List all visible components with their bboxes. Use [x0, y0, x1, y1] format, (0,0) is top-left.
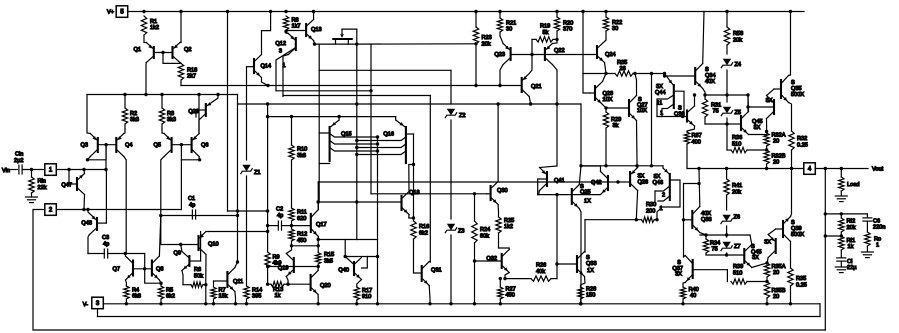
svg-text:510: 510 — [733, 271, 742, 277]
wire Q33 collector — [584, 220, 586, 252]
svg-text:620: 620 — [297, 216, 306, 222]
wire bias bus A — [181, 84, 522, 87]
wire output line — [687, 167, 804, 170]
wire x748 driver column — [747, 95, 749, 112]
transistor Q36 — [674, 93, 696, 132]
svg-text:2k7: 2k7 — [187, 74, 196, 80]
wire Q16 base column — [412, 134, 415, 221]
terminal 5 (V+) — [107, 6, 128, 17]
resistor R22 — [603, 12, 622, 41]
wire x318 column (Q15 base to Q17) — [317, 164, 320, 210]
svg-text:R26: R26 — [536, 263, 546, 269]
svg-text:3k3: 3k3 — [130, 117, 139, 123]
svg-text:30: 30 — [506, 27, 512, 33]
wire feedback jog — [824, 234, 842, 237]
svg-text:R58: R58 — [733, 31, 743, 37]
svg-text:22k: 22k — [38, 185, 47, 191]
wire rail column 227 — [227, 12, 229, 212]
wire x237 to R9 link — [228, 209, 270, 212]
svg-text:C3: C3 — [102, 235, 109, 241]
svg-text:Q42: Q42 — [591, 180, 602, 186]
wire Cin to box1 — [22, 168, 45, 171]
wire Q38 base column — [682, 182, 701, 222]
svg-text:R39: R39 — [733, 264, 743, 270]
svg-text:Vin: Vin — [2, 168, 10, 174]
zener Z5 — [721, 95, 741, 124]
transistor Q21 — [522, 55, 542, 105]
jfet current source — [333, 29, 357, 44]
capacitor C2 — [276, 207, 283, 231]
resistor R32B — [764, 150, 786, 169]
wire R12 link — [290, 244, 318, 247]
resistor R19 — [532, 24, 557, 43]
transistor Q45 (bottom driver) — [727, 235, 767, 268]
transistor Q48 — [81, 210, 106, 254]
wire Q44 emitter node — [663, 74, 666, 78]
resistor R23 — [473, 12, 491, 86]
svg-text:3X: 3X — [764, 240, 771, 246]
transistor Q45 (top driver) — [727, 95, 767, 135]
svg-text:Q16: Q16 — [383, 132, 394, 138]
svg-text:40X: 40X — [705, 79, 715, 85]
svg-text:R15: R15 — [324, 252, 334, 258]
wire x371 column — [370, 44, 372, 194]
wire input tail bus — [87, 93, 238, 96]
wire rail to R35 line — [581, 10, 584, 74]
resistor Ro — [861, 232, 881, 258]
transistor Q28 — [590, 74, 613, 113]
transistor Q3 — [81, 95, 98, 160]
resistor R1 — [141, 16, 159, 35]
resistor R7 — [211, 281, 228, 304]
wire x557 column — [556, 195, 558, 264]
transistor Q11 — [214, 95, 244, 304]
svg-text:500X: 500X — [791, 92, 804, 98]
svg-text:Q8: Q8 — [156, 267, 163, 273]
capacitor Cin — [14, 152, 23, 175]
wire R9 column top — [267, 117, 269, 226]
resistor R32A — [764, 130, 786, 152]
resistor R31 — [702, 95, 728, 126]
svg-text:6k2: 6k2 — [166, 294, 175, 300]
wire x377 column — [376, 137, 379, 305]
wire Q7 Q8 base tie — [133, 269, 161, 283]
svg-text:4p: 4p — [189, 203, 195, 209]
svg-text:Q7: Q7 — [113, 267, 120, 273]
wire Q10 emitter line — [209, 230, 270, 233]
wire box1 to input bases — [56, 145, 107, 172]
transistor Q29 — [188, 95, 218, 134]
svg-text:Q13: Q13 — [311, 27, 322, 33]
wire bus D — [238, 102, 582, 105]
svg-text:1X: 1X — [587, 268, 594, 274]
wire zobel drop — [824, 169, 826, 331]
svg-text:30: 30 — [612, 26, 618, 32]
svg-text:3X: 3X — [754, 125, 761, 131]
svg-text:Q21: Q21 — [531, 84, 542, 90]
transistor Q22 — [545, 39, 565, 166]
svg-text:3k: 3k — [613, 123, 619, 129]
svg-text:510: 510 — [732, 142, 741, 148]
capacitor C6 — [863, 214, 886, 232]
svg-text:200: 200 — [646, 209, 655, 215]
svg-text:R12: R12 — [297, 232, 307, 238]
wire x581 column top — [580, 104, 582, 166]
svg-text:450: 450 — [297, 238, 306, 244]
svg-text:R37: R37 — [692, 133, 702, 139]
wire Q15 collector dots — [376, 135, 379, 152]
resistor R18 — [178, 63, 197, 85]
transistor top clamp 3X — [746, 89, 774, 131]
resistor R32 (0.25) — [789, 131, 808, 169]
resistor R35 (0.25) — [788, 268, 807, 304]
svg-text:2µ2: 2µ2 — [14, 158, 23, 164]
transistor Q31 — [422, 262, 442, 304]
svg-text:Z2: Z2 — [459, 113, 466, 119]
transistor Q34 — [665, 12, 716, 96]
wire Q6 diode tie — [181, 145, 201, 162]
resistor R11 — [289, 208, 307, 229]
svg-text:20: 20 — [773, 294, 779, 300]
wire x160 column down — [160, 216, 162, 245]
zener Z1 — [241, 67, 261, 286]
svg-text:3X: 3X — [752, 255, 759, 261]
svg-text:RI2: RI2 — [847, 219, 856, 225]
transistor Q40 — [338, 240, 379, 288]
svg-text:Cin: Cin — [15, 152, 23, 158]
resistor R40 — [680, 287, 698, 304]
resistor R26 — [503, 262, 558, 281]
wire Q48 base up — [105, 170, 107, 224]
resistor R9 — [265, 226, 282, 285]
svg-text:Q23: Q23 — [494, 52, 505, 58]
transistor Q41 — [538, 166, 565, 196]
capacitor C1 — [188, 196, 196, 219]
transistor Q20 — [288, 267, 331, 304]
transistor Q16 (multi-collector) — [357, 117, 414, 163]
resistor R17 — [354, 287, 372, 304]
svg-text:20k: 20k — [733, 38, 742, 44]
svg-text:450: 450 — [506, 293, 515, 299]
svg-text:3X: 3X — [675, 272, 682, 278]
transistor Q46 (3X) — [653, 166, 681, 220]
svg-text:400: 400 — [692, 140, 701, 146]
svg-text:3: 3 — [279, 49, 282, 55]
transistor Q13 — [284, 12, 321, 45]
svg-text:Rin: Rin — [38, 179, 46, 185]
svg-text:3k3: 3k3 — [167, 117, 176, 123]
svg-text:22µ: 22µ — [847, 265, 857, 271]
resistor R8 — [283, 16, 300, 33]
svg-text:Q31: Q31 — [431, 268, 442, 274]
svg-text:395: 395 — [252, 294, 261, 300]
transistor Q27 — [606, 74, 648, 166]
transistor Q26 — [618, 166, 648, 220]
transistor Q23 — [494, 36, 510, 86]
wire zobel branch line — [824, 212, 868, 215]
svg-text:Q5: Q5 — [154, 143, 161, 149]
wire V- loop — [98, 304, 821, 317]
svg-text:80k: 80k — [480, 234, 489, 240]
wire Vin lead — [10, 169, 18, 171]
svg-text:1: 1 — [876, 243, 879, 249]
svg-text:Q38: Q38 — [701, 217, 712, 223]
zener Z4 — [721, 59, 741, 97]
resistor R25 — [496, 217, 514, 248]
resistor R15 — [316, 238, 335, 268]
resistor R35B — [764, 282, 785, 304]
svg-text:Z1: Z1 — [254, 170, 261, 176]
transistor Q25 — [572, 166, 591, 304]
zener Z2 — [445, 70, 465, 219]
ground Rin — [26, 193, 38, 203]
svg-text:20: 20 — [773, 139, 779, 145]
transistor Q2 — [173, 12, 192, 64]
wire line A y166 — [579, 164, 663, 167]
svg-text:R35: R35 — [796, 276, 806, 282]
transistor Q10 — [199, 232, 219, 287]
transistor Q14 — [247, 12, 272, 86]
svg-text:6k2: 6k2 — [419, 231, 428, 237]
wire V- rail — [103, 302, 820, 305]
svg-text:R6: R6 — [194, 267, 201, 273]
capacitor CI — [837, 258, 857, 271]
resistor R29 — [603, 112, 621, 166]
svg-text:20k: 20k — [847, 225, 856, 231]
svg-text:1X: 1X — [584, 199, 591, 205]
svg-text:Q33: Q33 — [586, 261, 597, 267]
svg-text:R24: R24 — [480, 227, 490, 233]
transistor Q24 — [597, 40, 616, 74]
svg-text:220n: 220n — [873, 225, 885, 231]
svg-text:2: 2 — [662, 193, 665, 199]
transistor Q32 — [475, 248, 510, 279]
capacitor C3 — [102, 235, 109, 258]
transistor Q37 — [672, 256, 727, 288]
svg-text:3k6: 3k6 — [297, 153, 306, 159]
label Vin — [2, 168, 10, 174]
resistor R28 — [578, 287, 596, 304]
svg-text:3k5: 3k5 — [324, 259, 333, 265]
svg-text:Q36: Q36 — [674, 112, 685, 118]
wire box2 line — [56, 160, 181, 211]
wire C1 line — [159, 214, 239, 217]
svg-text:Q2: Q2 — [184, 47, 191, 53]
svg-text:5k: 5k — [543, 30, 549, 36]
svg-text:1k7: 1k7 — [292, 24, 301, 30]
svg-text:40: 40 — [690, 293, 696, 299]
svg-text:26: 26 — [620, 66, 626, 72]
svg-text:Z6: Z6 — [734, 215, 741, 221]
svg-text:150: 150 — [586, 293, 595, 299]
wire Q15 base column up — [318, 44, 320, 133]
transistor Q1 — [134, 35, 154, 95]
svg-text:Q29: Q29 — [188, 109, 199, 115]
wire y44 line to R23 — [357, 43, 476, 45]
svg-text:R19: R19 — [540, 24, 550, 30]
svg-text:R10: R10 — [297, 147, 307, 153]
resistor R3 — [159, 95, 176, 130]
svg-text:40k: 40k — [536, 269, 545, 275]
svg-text:1k: 1k — [848, 244, 854, 250]
wire Q7 diode tie — [125, 254, 146, 271]
svg-text:10X: 10X — [603, 97, 613, 103]
svg-text:4p: 4p — [103, 242, 109, 248]
svg-text:1k2: 1k2 — [150, 25, 159, 31]
wire y194 node line — [538, 194, 599, 196]
wire to Vout — [815, 167, 868, 170]
transistor Q30 — [487, 104, 508, 217]
svg-text:1: 1 — [660, 206, 663, 212]
terminal 2 — [45, 204, 57, 216]
transistor Q19 — [266, 246, 294, 284]
svg-text:V-: V- — [83, 302, 88, 308]
wire x428 column — [429, 96, 431, 263]
transistor Q39 — [783, 169, 804, 269]
svg-text:Q25: Q25 — [580, 190, 591, 196]
resistor RI1 — [839, 236, 856, 258]
transistor Q6 — [192, 95, 209, 160]
wire Q1 Q2 bases — [154, 51, 181, 64]
svg-text:Q4: Q4 — [125, 143, 132, 149]
svg-text:20k: 20k — [482, 42, 491, 48]
wire Q18 base line — [318, 200, 401, 203]
svg-text:Q22: Q22 — [554, 48, 565, 54]
wire bias bus C — [283, 95, 430, 97]
svg-text:75: 75 — [713, 109, 719, 115]
svg-text:75: 75 — [712, 247, 718, 253]
wire to Q31 base — [414, 240, 422, 274]
svg-text:Q46: Q46 — [653, 180, 664, 186]
svg-text:Q41: Q41 — [554, 178, 565, 184]
svg-text:0.25: 0.25 — [797, 143, 808, 149]
resistor R24 — [472, 194, 490, 304]
resistor R27 — [498, 277, 516, 304]
svg-text:11: 11 — [657, 101, 663, 107]
transistor Q7 — [113, 254, 133, 287]
svg-text:R30: R30 — [646, 202, 656, 208]
svg-text:R11: R11 — [297, 210, 307, 216]
label Vout — [872, 167, 884, 173]
resistor R36 — [727, 135, 767, 153]
resistor R13 — [266, 282, 290, 300]
zener Z3 — [445, 224, 464, 304]
svg-text:370: 370 — [563, 27, 572, 33]
svg-text:0.25: 0.25 — [796, 283, 807, 289]
resistor R21 — [497, 12, 516, 37]
svg-text:910: 910 — [362, 294, 371, 300]
wire y235 line — [700, 233, 750, 236]
svg-text:500X: 500X — [791, 232, 804, 238]
wire x651 column — [651, 74, 653, 166]
resistor Load — [835, 169, 859, 202]
resistor R37 — [684, 132, 701, 169]
transistor Q44 (3X) — [655, 74, 687, 119]
svg-text:V+: V+ — [107, 10, 114, 16]
svg-text:50k: 50k — [194, 274, 203, 280]
wire clamp to Q39 base — [776, 228, 783, 230]
transistor Q47 — [61, 170, 84, 210]
svg-text:R32: R32 — [797, 136, 807, 142]
wire y95 line — [703, 93, 749, 96]
svg-text:6k8: 6k8 — [132, 294, 141, 300]
terminal 1 — [45, 164, 57, 176]
svg-text:Q14: Q14 — [261, 64, 272, 70]
svg-text:C1: C1 — [188, 196, 195, 202]
resistor R20 — [554, 12, 573, 42]
wire Q37 collector column — [683, 220, 685, 257]
wire bias bus B — [276, 89, 373, 92]
wire Q3 diode tie — [86, 145, 106, 162]
wire x356 column — [356, 44, 358, 239]
resistor R34 — [703, 235, 726, 255]
wire Q5 Q6 bases — [172, 143, 192, 146]
svg-text:Q11: Q11 — [233, 279, 243, 285]
svg-text:Q12: Q12 — [275, 41, 286, 47]
resistor R5 — [158, 286, 175, 304]
wire Q28 base loop — [583, 74, 590, 94]
svg-text:Z7: Z7 — [734, 244, 741, 250]
svg-text:20: 20 — [773, 270, 779, 276]
svg-text:Q17: Q17 — [316, 222, 327, 228]
wire y116 feed stub — [266, 102, 269, 116]
resistor R10 — [289, 117, 307, 208]
resistor R14 — [244, 286, 262, 304]
resistor R35A — [764, 261, 785, 281]
svg-text:Q10: Q10 — [208, 242, 219, 248]
wire C2 line — [266, 224, 292, 227]
svg-text:Q3: Q3 — [81, 143, 88, 149]
svg-text:Q9: Q9 — [174, 251, 181, 257]
svg-text:C2: C2 — [276, 207, 283, 213]
svg-text:Z3: Z3 — [458, 229, 465, 235]
wire V+ rail — [128, 10, 804, 13]
transistor Q38 — [684, 169, 712, 236]
resistor Rin — [29, 170, 47, 194]
svg-text:Z4: Z4 — [735, 62, 742, 68]
resistor R39 — [727, 264, 768, 284]
svg-text:Q48: Q48 — [81, 221, 92, 227]
svg-text:R41: R41 — [732, 183, 742, 189]
svg-text:1k2: 1k2 — [504, 224, 513, 230]
svg-text:R36: R36 — [732, 135, 742, 141]
resistor R16 — [411, 221, 429, 240]
svg-text:Q18: Q18 — [409, 190, 420, 196]
svg-text:1: 1 — [660, 111, 663, 117]
svg-text:Q20: Q20 — [320, 283, 331, 289]
wire Q13 emitter line — [313, 42, 359, 45]
wire R16 line left — [318, 239, 377, 241]
svg-text:Q30: Q30 — [497, 188, 508, 194]
svg-text:10X: 10X — [637, 108, 647, 114]
wire C3 line — [88, 252, 127, 255]
transistor Q17 — [292, 182, 327, 240]
svg-text:Q1: Q1 — [134, 47, 141, 53]
transistor Q4 — [116, 129, 132, 253]
resistor RI2 — [839, 214, 856, 238]
svg-text:15k: 15k — [219, 294, 228, 300]
svg-text:1k: 1k — [275, 293, 281, 299]
transistor Q5 — [154, 129, 172, 216]
wire Q10 emitter drop — [205, 285, 207, 304]
wire Q10 base line — [161, 243, 198, 246]
wire y116 line — [266, 115, 396, 118]
svg-text:Load: Load — [847, 182, 859, 188]
svg-text:R23: R23 — [482, 35, 492, 41]
wire Q30 base line — [371, 192, 487, 195]
resistor R2 — [122, 95, 139, 130]
zener Z7 — [721, 235, 741, 257]
